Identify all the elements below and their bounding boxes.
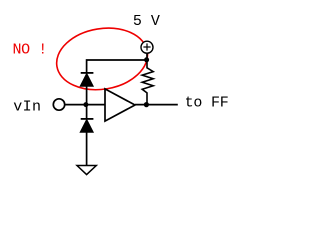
ground symbol [77,166,96,175]
annotation ellipse (red oval marking the clamp circuit) [52,22,152,97]
diode D2 (clamp to ground) [80,119,93,132]
wire vIn terminal to buffer input [65,104,105,106]
input terminal circle (vIn) [53,99,64,110]
svg-text:NO !: NO ! [13,42,47,59]
buffer U1 (triangle) [105,89,135,121]
junction node: vIn / diodes [83,102,88,107]
wire D2 anode to ground [86,132,88,166]
junction node: rail / resistor top [144,57,149,62]
resistor R (pull-up from 5V to output node) [142,60,153,105]
junction node: output / resistor bottom [144,102,149,107]
svg-text:vIn: vIn [13,98,41,115]
wire power terminal to rail [146,52,148,60]
svg-text:5 V: 5 V [133,13,160,30]
wire buffer output to FF [135,104,178,106]
wire D1 anode through vIn node to D2 cathode [86,86,88,119]
power terminal U+ (5V supply, circle with plus) [141,41,153,53]
svg-text:to FF: to FF [185,95,229,112]
diode D1 (clamp to 5V rail) [80,73,93,86]
wire top rail (5V rail) [87,60,147,73]
